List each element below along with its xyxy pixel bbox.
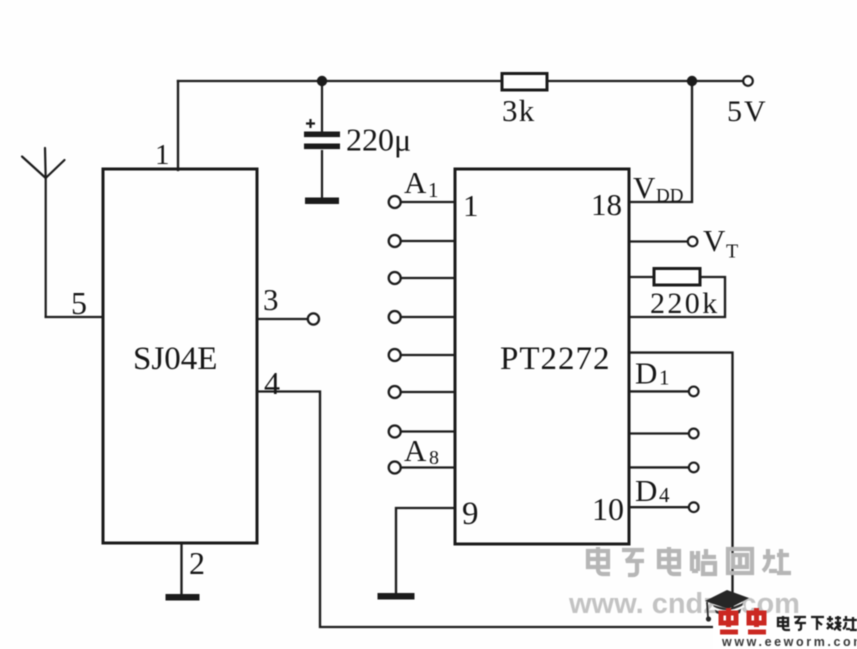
ground for pin9	[378, 593, 415, 600]
logo text 电子下载站 (black)	[778, 616, 857, 630]
wire osc loop 220k	[630, 276, 654, 278]
svg-text:1: 1	[463, 188, 479, 223]
node A5 open terminal	[389, 349, 401, 361]
wire D1 stub	[630, 390, 688, 392]
svg-text:3: 3	[263, 282, 279, 317]
wire D2 stub	[630, 432, 688, 434]
svg-text:V: V	[633, 170, 656, 205]
wire pin4 to bottom bus	[257, 392, 733, 628]
wire pin9 to ground	[396, 508, 455, 593]
wire VT stub	[630, 240, 687, 242]
address input pins A1..A8	[401, 202, 455, 468]
svg-text:220k: 220k	[650, 287, 720, 320]
resistor R2 220k	[650, 269, 720, 321]
node D2 open terminal	[689, 429, 699, 439]
svg-text:DD: DD	[656, 186, 683, 207]
node A3 open terminal	[389, 272, 401, 284]
wire VDD rail drop	[630, 81, 692, 202]
node A8 open terminal	[389, 462, 401, 474]
node 5V open terminal	[743, 76, 753, 86]
svg-text:1: 1	[659, 366, 670, 390]
node VT open terminal	[688, 237, 698, 247]
logo white backplate	[713, 615, 857, 649]
node junction dot at VDD drop	[687, 76, 697, 86]
svg-text:3k: 3k	[502, 93, 535, 128]
svg-text:4: 4	[659, 483, 670, 507]
node A7 open terminal	[389, 426, 401, 438]
net label D4	[635, 473, 670, 508]
wire pin2 to ground	[180, 543, 182, 594]
IC U2 PT2272	[455, 169, 629, 544]
svg-text:SJ04E: SJ04E	[133, 341, 217, 377]
net label D1	[635, 356, 670, 391]
wire D4 stub	[630, 506, 688, 508]
node D4 open terminal	[689, 502, 699, 512]
wire pin1 SJ04E to rail	[177, 81, 179, 170]
wire D3 stub	[630, 466, 688, 468]
svg-text:5: 5	[71, 285, 87, 321]
svg-text:2: 2	[189, 545, 205, 581]
svg-text:220μ: 220μ	[346, 122, 411, 158]
svg-text:1: 1	[428, 178, 439, 202]
svg-text:A: A	[404, 433, 427, 468]
wire top supply rail	[178, 80, 748, 82]
node pin3 open terminal	[308, 313, 319, 324]
IC U1 SJ04E	[103, 169, 257, 543]
node A4 open terminal	[389, 311, 401, 323]
ground for pin2	[166, 594, 200, 601]
svg-text:18: 18	[591, 187, 622, 222]
node A1 open terminal	[389, 196, 401, 208]
net label VT	[703, 223, 738, 263]
svg-text:1: 1	[155, 139, 170, 171]
node A6 open terminal	[389, 386, 401, 398]
wire right rail to bottom bus	[630, 353, 733, 627]
resistor R1 3k	[502, 74, 547, 129]
svg-text:D: D	[635, 356, 657, 391]
wire antenna to pin5	[46, 316, 103, 318]
node D3 open terminal	[689, 463, 699, 473]
svg-text:T: T	[726, 241, 738, 263]
net label A1	[404, 165, 439, 202]
net label A8	[404, 433, 439, 469]
svg-text:A: A	[404, 165, 427, 200]
svg-text:V: V	[703, 223, 726, 258]
logo text 虫虫 (red)	[720, 608, 766, 632]
wire pin3 stub	[257, 318, 308, 320]
node D1 open terminal	[689, 387, 699, 397]
svg-text:PT2272: PT2272	[500, 341, 611, 377]
logo graduation cap	[705, 590, 749, 622]
svg-text:D: D	[635, 473, 657, 508]
svg-text:9: 9	[462, 496, 479, 532]
svg-text:4: 4	[264, 365, 280, 401]
node junction dot at cap	[317, 76, 327, 86]
svg-text:10: 10	[592, 491, 624, 527]
antenna	[22, 148, 65, 317]
capacitor C1 220u	[304, 81, 411, 198]
svg-text:www.eeworm.com: www.eeworm.com	[721, 635, 857, 649]
svg-text:8: 8	[429, 447, 439, 469]
svg-text:5V: 5V	[727, 95, 768, 128]
net label VDD	[633, 170, 683, 207]
node A2 open terminal	[389, 235, 401, 247]
watermark cndzz chinese characters 电子电路图站	[588, 547, 791, 575]
ground for C1	[305, 198, 339, 205]
